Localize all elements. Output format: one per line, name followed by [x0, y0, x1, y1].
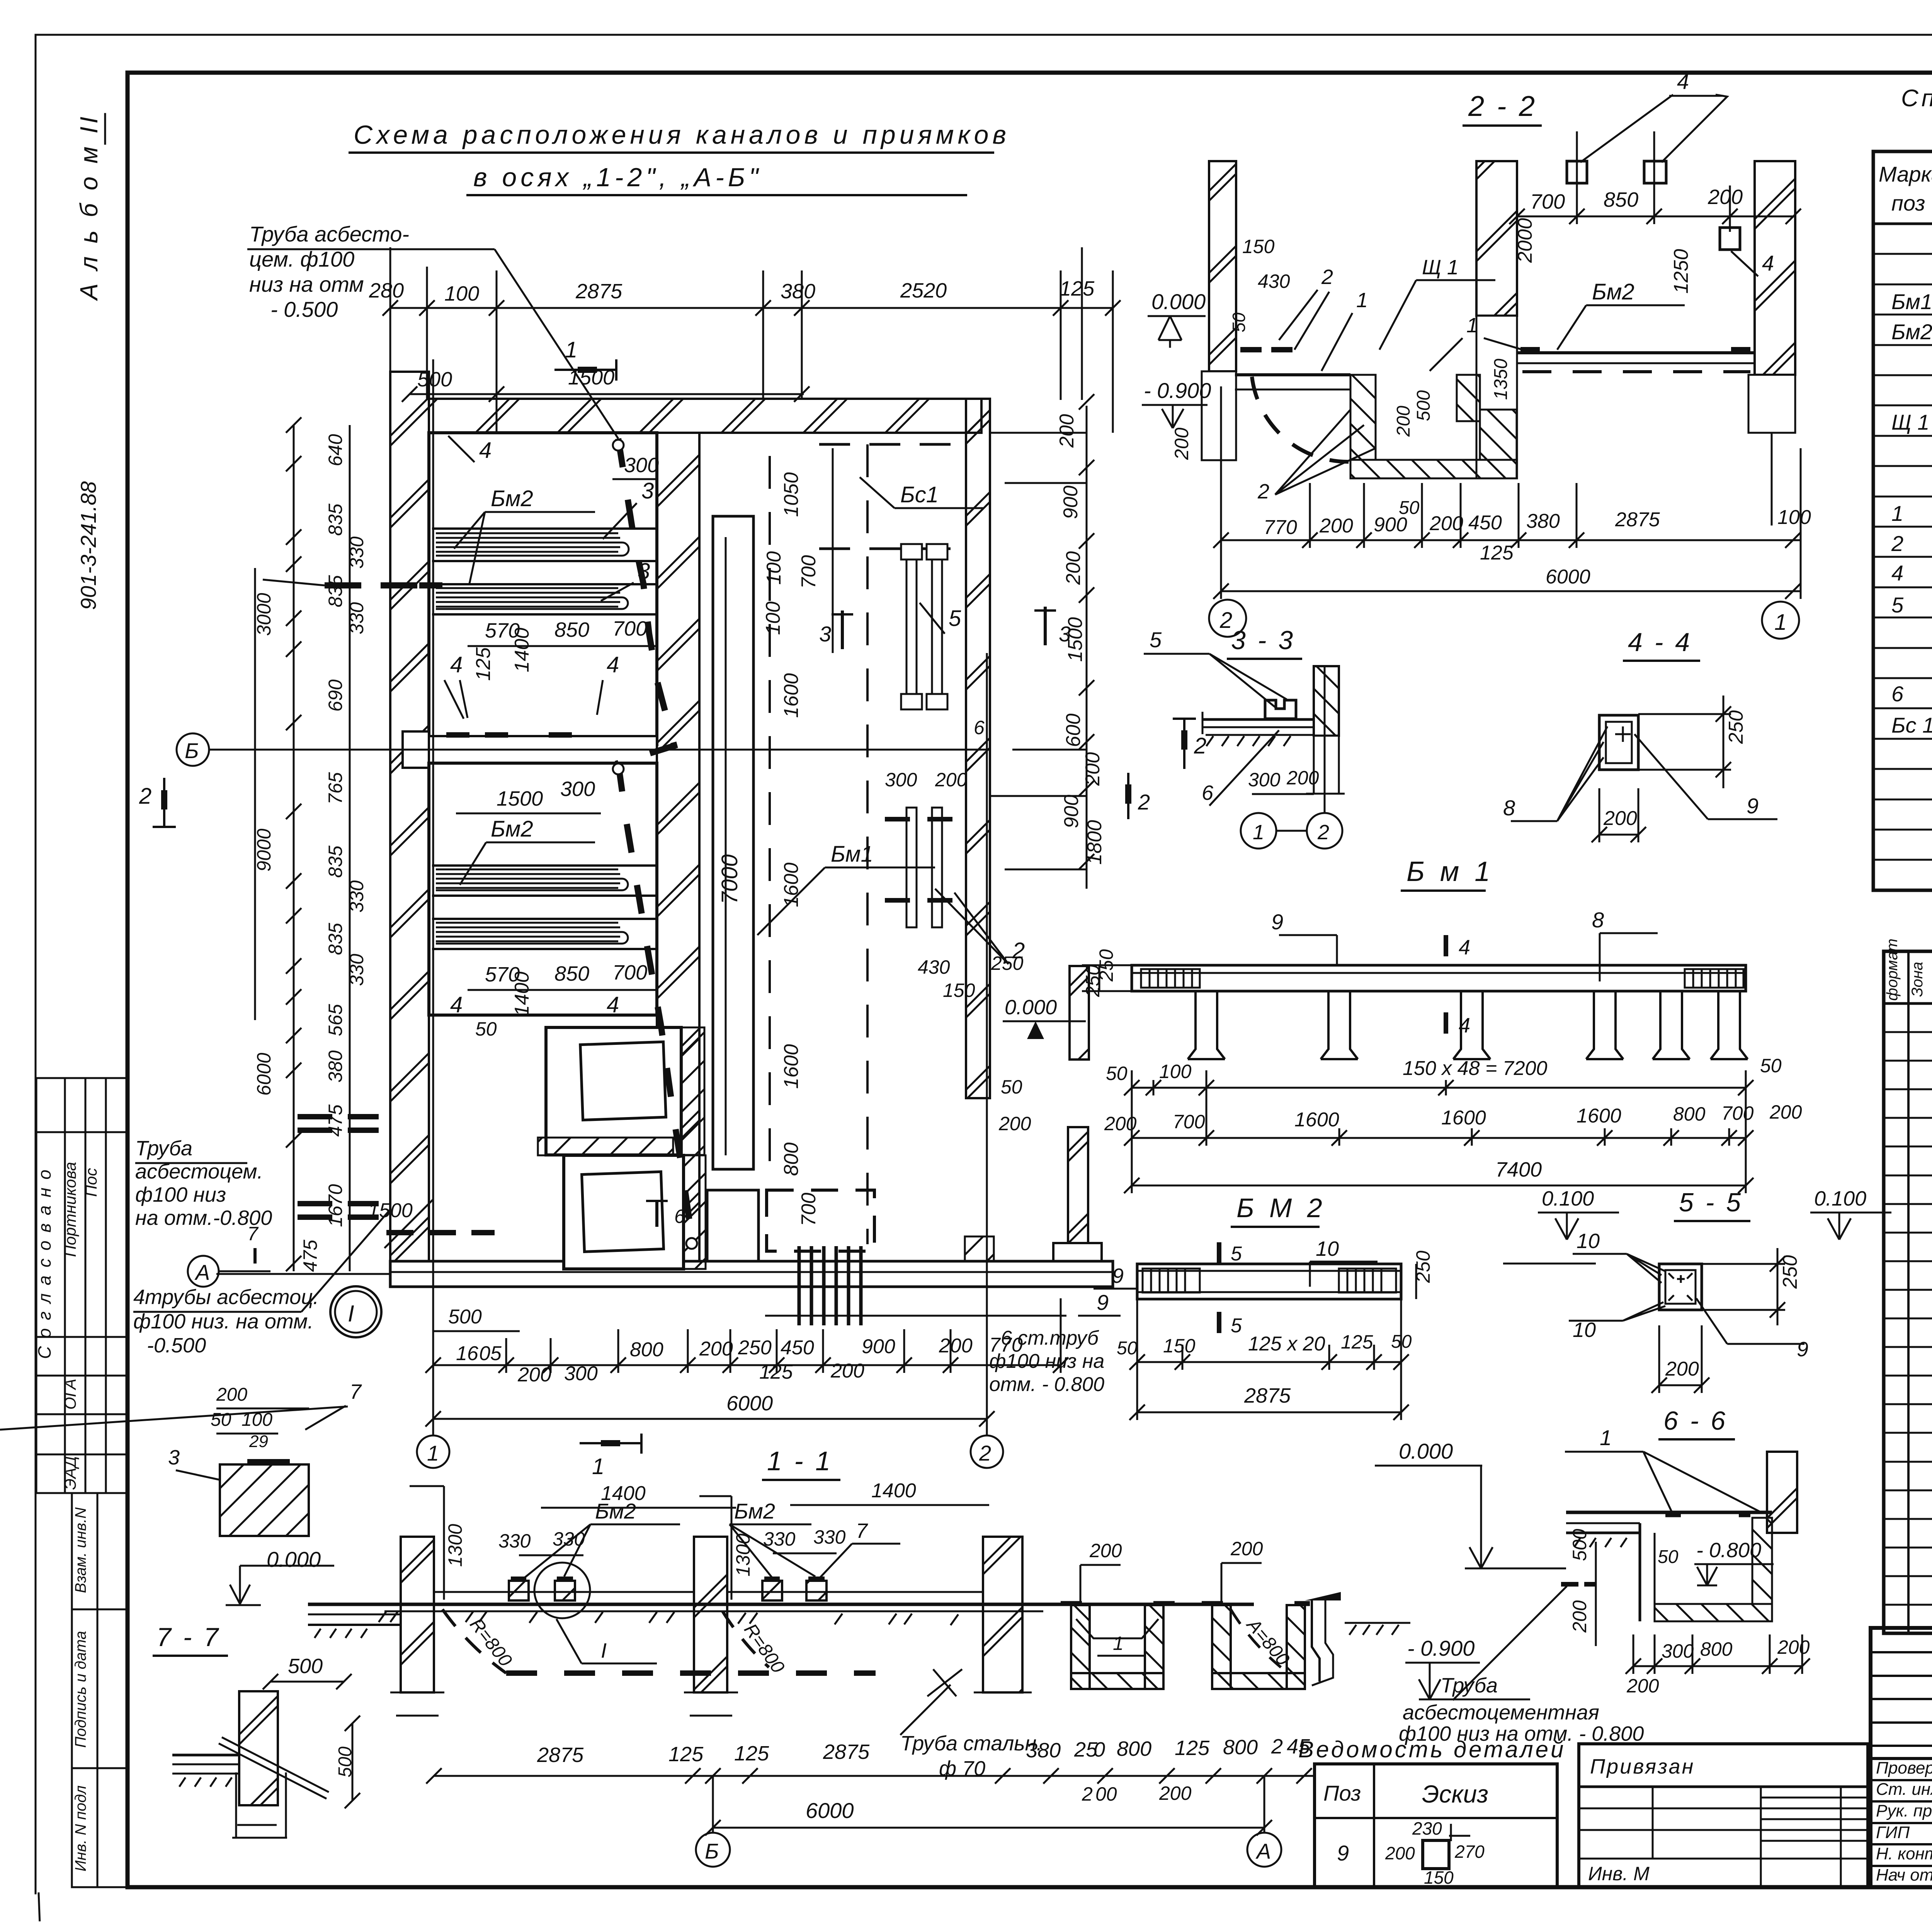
svg-text:50: 50 [475, 1018, 497, 1040]
svg-text:1: 1 [1113, 1633, 1124, 1654]
svg-text:640: 640 [325, 434, 346, 466]
svg-text:- 0.900: - 0.900 [1407, 1636, 1475, 1660]
svg-text:770: 770 [989, 1334, 1023, 1356]
wall left [390, 372, 429, 1287]
svg-text:4: 4 [450, 992, 463, 1017]
svg-text:1500: 1500 [497, 787, 543, 810]
svg-text:200: 200 [939, 1335, 973, 1357]
svg-text:А: А [1255, 1839, 1271, 1863]
wall mid B (corridor right) [966, 399, 990, 1098]
svg-text:330: 330 [346, 880, 367, 913]
svg-text:850: 850 [1604, 188, 1638, 211]
svg-text:330: 330 [763, 1528, 796, 1550]
svg-text:300: 300 [624, 454, 659, 477]
svg-text:835: 835 [325, 923, 346, 955]
svg-text:6: 6 [974, 717, 985, 738]
svg-text:4: 4 [1891, 561, 1903, 585]
svg-text:1: 1 [427, 1441, 439, 1465]
sheet outer border [36, 34, 1932, 36]
svg-text:1: 1 [1356, 289, 1368, 312]
svg-text:100: 100 [762, 602, 784, 635]
svg-text:835: 835 [325, 845, 346, 878]
svg-text:3: 3 [168, 1446, 180, 1469]
svg-text:50: 50 [211, 1410, 231, 1430]
svg-text:2: 2 [1219, 608, 1232, 633]
right end wall and -0.900 [1305, 1592, 1341, 1600]
svg-text:0.100: 0.100 [1814, 1187, 1866, 1210]
svg-text:200: 200 [1286, 767, 1319, 789]
svg-text:Рук. пр.: Рук. пр. [1876, 1801, 1932, 1820]
svg-text:- 0.800: - 0.800 [1696, 1539, 1761, 1562]
svg-text:Бм2: Бм2 [491, 816, 533, 842]
svg-text:отм. - 0.800: отм. - 0.800 [989, 1373, 1104, 1396]
svg-text:3000: 3000 [253, 593, 275, 636]
corridor dashed axis lines [769, 456, 771, 1182]
dashed line top left entering plan [325, 582, 442, 588]
svg-text:Труба: Труба [1440, 1674, 1498, 1697]
dashed trench with arcs [442, 1609, 506, 1673]
svg-text:6000: 6000 [253, 1053, 275, 1095]
svg-text:29: 29 [249, 1432, 268, 1451]
svg-text:200: 200 [1089, 1540, 1122, 1561]
svg-text:300: 300 [560, 777, 595, 801]
svg-text:200: 200 [1708, 185, 1743, 209]
sketch in table [1423, 1840, 1449, 1869]
svg-text:900: 900 [1060, 486, 1082, 519]
svg-text:380: 380 [325, 1050, 346, 1083]
wall right lower [1068, 1127, 1088, 1269]
svg-text:1400: 1400 [871, 1480, 916, 1502]
svg-text:Инв. N подл: Инв. N подл [72, 1786, 89, 1872]
svg-text:6000: 6000 [806, 1798, 854, 1823]
svg-text:850: 850 [554, 962, 589, 985]
svg-text:1: 1 [1600, 1425, 1612, 1450]
svg-text:Труба: Труба [135, 1137, 192, 1160]
tank 1 [429, 433, 657, 745]
svg-text:I: I [601, 1639, 607, 1662]
svg-text:ф100 низ: ф100 низ [135, 1183, 226, 1206]
svg-text:2875: 2875 [537, 1743, 584, 1767]
svg-text:330: 330 [346, 954, 367, 986]
beam body [1137, 1264, 1401, 1299]
svg-text:Бм2: Бм2 [491, 486, 533, 511]
beam cross square [1599, 715, 1638, 770]
svg-text:700: 700 [612, 961, 647, 984]
svg-text:200: 200 [1056, 414, 1078, 448]
svg-text:250: 250 [991, 952, 1024, 974]
svg-text:2: 2 [1321, 265, 1333, 289]
svg-text:200: 200 [517, 1364, 551, 1386]
svg-text:1: 1 [1253, 821, 1264, 844]
svg-text:900: 900 [1060, 795, 1083, 828]
svg-text:125: 125 [1480, 542, 1514, 564]
svg-text:100: 100 [1159, 1061, 1192, 1082]
svg-text:05: 05 [479, 1342, 502, 1365]
svg-text:Б: Б [185, 738, 199, 763]
svg-text:850: 850 [554, 618, 589, 641]
svg-text:формат: формат [1884, 939, 1901, 1001]
svg-text:50: 50 [1760, 1055, 1782, 1077]
svg-text:9: 9 [1271, 910, 1283, 934]
svg-text:125: 125 [668, 1743, 704, 1766]
svg-text:200: 200 [699, 1338, 733, 1360]
svg-text:2520: 2520 [900, 279, 947, 302]
svg-text:835: 835 [325, 575, 346, 607]
svg-text:300: 300 [885, 769, 917, 791]
svg-text:330: 330 [813, 1526, 846, 1548]
svg-text:Поз: Поз [1323, 1781, 1361, 1805]
wall right upper [1070, 966, 1089, 1060]
svg-text:2: 2 [1271, 1735, 1283, 1758]
square section [1659, 1264, 1702, 1310]
dashed plate right of sump [767, 1190, 874, 1251]
svg-text:800: 800 [630, 1338, 663, 1361]
svg-text:Нач отд: Нач отд [1876, 1866, 1932, 1884]
svg-text:50: 50 [1001, 1076, 1022, 1098]
svg-text:450: 450 [781, 1337, 814, 1359]
svg-text:1050: 1050 [780, 472, 803, 517]
truba stal leader [927, 1669, 962, 1696]
section marker 2 (left) [153, 778, 176, 827]
svg-text:9: 9 [1112, 1264, 1124, 1287]
svg-text:1: 1 [1466, 314, 1478, 337]
dashed trench line through tanks [618, 439, 692, 1236]
left middle pipe labels [135, 1137, 272, 1230]
svg-text:6000: 6000 [1546, 566, 1590, 588]
pipe dashes + leader [1561, 1582, 1596, 1587]
horizontal axis lines [209, 749, 989, 751]
svg-text:250: 250 [1725, 710, 1747, 744]
section marker 1 (top) [554, 359, 616, 381]
svg-text:380: 380 [1026, 1739, 1061, 1762]
axis circles 1 2 [417, 1435, 449, 1468]
svg-text:ЭАД: ЭАД [61, 1456, 79, 1490]
svg-text:3 - 3: 3 - 3 [1231, 626, 1295, 655]
ground hatch at left end [379, 1611, 958, 1625]
svg-text:10: 10 [1316, 1237, 1339, 1260]
diagonal strut [219, 1737, 329, 1799]
svg-text:835: 835 [325, 503, 346, 536]
svg-text:100: 100 [444, 282, 479, 305]
svg-text:5: 5 [1891, 593, 1904, 617]
svg-text:2: 2 [1317, 821, 1329, 844]
svg-text:2: 2 [1194, 733, 1206, 759]
svg-text:Взам. инв.N: Взам. инв.N [72, 1507, 89, 1593]
svg-text:Пос: Пос [82, 1168, 100, 1197]
svg-text:800: 800 [1673, 1103, 1706, 1125]
svg-text:7: 7 [247, 1223, 259, 1245]
svg-text:7: 7 [856, 1519, 868, 1543]
svg-text:250: 250 [1779, 1255, 1801, 1289]
beam top flange [1132, 965, 1746, 991]
svg-text:125: 125 [734, 1742, 769, 1765]
top-left pipe label [249, 222, 409, 321]
svg-text:200: 200 [1393, 406, 1414, 437]
svg-text:1600: 1600 [780, 673, 803, 718]
svg-text:Щ 1: Щ 1 [1891, 410, 1929, 434]
svg-text:2875: 2875 [823, 1740, 870, 1764]
privyazan box [1579, 1744, 1868, 1887]
top dimension row [369, 277, 1095, 305]
dividing hatched strip [538, 1138, 673, 1155]
wall column [1314, 666, 1339, 736]
svg-text:330: 330 [346, 536, 367, 569]
svg-text:Бм2: Бм2 [734, 1499, 775, 1523]
deck plate double line [1202, 718, 1314, 721]
svg-text:2875: 2875 [1615, 509, 1660, 531]
svg-text:200: 200 [1319, 515, 1353, 537]
svg-text:1400: 1400 [511, 971, 533, 1016]
left sidebar stamp column (soglasovano) [36, 1078, 128, 1493]
svg-text:800: 800 [780, 1143, 803, 1176]
right wall column [1755, 161, 1795, 375]
svg-text:16: 16 [456, 1342, 478, 1365]
svg-text:1600: 1600 [1294, 1109, 1339, 1131]
svg-text:низ на отм: низ на отм [249, 272, 364, 296]
svg-text:9000: 9000 [253, 828, 275, 871]
svg-text:6000: 6000 [726, 1392, 773, 1415]
svg-text:4 - 4: 4 - 4 [1628, 628, 1692, 657]
left dim chains [255, 425, 350, 1271]
svg-text:5: 5 [1231, 1315, 1242, 1337]
svg-text:500: 500 [1569, 1529, 1590, 1561]
svg-text:2: 2 [1891, 531, 1903, 556]
svg-text:4: 4 [1459, 936, 1470, 959]
svg-text:цем. ф100: цем. ф100 [249, 247, 354, 271]
corridor dim chain rotated [762, 472, 820, 1226]
svg-text:200: 200 [998, 1113, 1031, 1134]
svg-text:4трубы асбестоц.: 4трубы асбестоц. [133, 1286, 319, 1309]
svg-text:1: 1 [1774, 610, 1787, 635]
svg-text:1: 1 [592, 1454, 604, 1479]
svg-text:I: I [348, 1301, 354, 1327]
svg-text:4: 4 [1762, 251, 1774, 275]
svg-text:125: 125 [472, 647, 495, 681]
svg-text:Щ 1: Щ 1 [1422, 256, 1459, 279]
tank1 louver group 2 [432, 584, 657, 614]
svg-text:7 - 7: 7 - 7 [156, 1622, 221, 1652]
floor beam between mid and right walls (Бм2) [1517, 351, 1755, 354]
Bс1 dashed rect and label [819, 444, 966, 549]
svg-text:380: 380 [1526, 510, 1560, 532]
svg-text:700: 700 [612, 617, 647, 640]
svg-text:3: 3 [819, 622, 831, 646]
svg-text:475: 475 [299, 1240, 321, 1272]
svg-text:А л ь б о м II: А л ь б о м II [75, 114, 103, 301]
svg-text:С о г л а с о в а н о: С о г л а с о в а н о [34, 1168, 54, 1359]
svg-text:Ст. инж.: Ст. инж. [1876, 1780, 1932, 1799]
svg-text:50: 50 [1229, 312, 1249, 332]
svg-text:Бс1: Бс1 [900, 482, 939, 507]
svg-text:Инв. М: Инв. М [1588, 1863, 1650, 1884]
tank 2 [429, 763, 657, 1015]
svg-text:4: 4 [479, 438, 492, 463]
svg-text:1300: 1300 [444, 1524, 466, 1567]
svg-text:8: 8 [1592, 908, 1604, 932]
floor plate [172, 1754, 239, 1757]
tank1 louver group 1 [432, 529, 657, 561]
svg-text:1600: 1600 [780, 1044, 803, 1089]
bottom dim rows [1221, 539, 1801, 541]
lower strips pair [906, 808, 942, 927]
svg-text:1400: 1400 [511, 628, 533, 672]
svg-text:565: 565 [325, 1004, 346, 1036]
svg-text:асбестоцементная: асбестоцементная [1403, 1701, 1599, 1724]
channel 7000 (BM1 in plan) [713, 516, 753, 1169]
pit structure below [1235, 373, 1350, 376]
svg-text:200: 200 [1603, 807, 1637, 830]
svg-text:2: 2 [139, 784, 151, 809]
svg-text:Портникова: Портникова [61, 1162, 79, 1257]
svg-text:3: 3 [641, 478, 654, 503]
svg-text:5: 5 [949, 606, 961, 631]
svg-text:поз: поз [1891, 191, 1925, 215]
svg-text:430: 430 [1258, 270, 1290, 292]
svg-text:Эскиз: Эскиз [1422, 1780, 1488, 1808]
svg-text:0.000: 0.000 [1399, 1439, 1453, 1463]
svg-text:200: 200 [1171, 427, 1192, 460]
marker 2 left [1127, 773, 1129, 819]
clamp plates [1265, 700, 1296, 719]
svg-text:1500: 1500 [1064, 617, 1087, 662]
svg-text:5: 5 [1231, 1243, 1242, 1265]
svg-text:ф100 низ. на отм.: ф100 низ. на отм. [133, 1310, 313, 1333]
svg-text:7: 7 [350, 1380, 362, 1403]
svg-text:7000: 7000 [717, 854, 742, 904]
svg-text:770: 770 [1264, 516, 1297, 539]
marks 3-3 section tees [832, 611, 853, 649]
mark 4 above [1444, 935, 1448, 956]
svg-text:Провер.: Провер. [1876, 1759, 1932, 1777]
svg-text:6: 6 [1891, 682, 1904, 706]
svg-text:5: 5 [1150, 628, 1162, 652]
svg-text:125 x 20: 125 x 20 [1248, 1333, 1325, 1355]
svg-text:150: 150 [943, 980, 975, 1001]
svg-text:150: 150 [1163, 1335, 1196, 1357]
pit box lower [564, 1155, 684, 1269]
svg-text:Б м 1: Б м 1 [1406, 856, 1494, 887]
svg-text:в осях „1-2", „А-Б": в осях „1-2", „А-Б" [473, 163, 762, 192]
svg-text:100: 100 [763, 551, 785, 585]
section 1-1 floor line [308, 1603, 1254, 1606]
svg-text:6: 6 [1202, 781, 1214, 804]
svg-text:1600: 1600 [1577, 1105, 1621, 1127]
svg-text:-0.500: -0.500 [147, 1334, 206, 1357]
svg-text:0: 0 [1094, 1738, 1105, 1761]
embedded squares item 4 [1567, 161, 1587, 183]
svg-text:Бм2: Бм2 [1891, 320, 1932, 344]
ground hatch [1206, 736, 1291, 746]
svg-text:330: 330 [346, 602, 367, 634]
svg-text:200: 200 [935, 769, 968, 791]
svg-text:200: 200 [830, 1360, 864, 1382]
svg-text:1600: 1600 [780, 862, 803, 907]
svg-text:450: 450 [1468, 512, 1502, 534]
svg-text:200: 200 [216, 1384, 247, 1405]
svg-text:500: 500 [448, 1306, 482, 1328]
left sidebar lower column [72, 1493, 128, 1887]
svg-text:280: 280 [369, 279, 404, 302]
svg-text:200: 200 [1569, 1600, 1590, 1633]
svg-text:200: 200 [1429, 512, 1463, 535]
left wall column [1209, 161, 1236, 371]
svg-text:2: 2 [979, 1441, 991, 1465]
svg-text:2875: 2875 [1244, 1384, 1291, 1407]
tank2 louvers [432, 866, 657, 949]
svg-text:800: 800 [1117, 1737, 1151, 1760]
svg-text:0.100: 0.100 [1542, 1187, 1594, 1210]
svg-text:200: 200 [1159, 1782, 1192, 1804]
dims [1638, 713, 1731, 715]
svg-text:900: 900 [1374, 514, 1407, 536]
svg-text:700: 700 [798, 555, 820, 589]
svg-text:0.000: 0.000 [267, 1547, 321, 1571]
svg-text:300: 300 [1248, 769, 1281, 791]
svg-text:330: 330 [498, 1530, 531, 1552]
svg-text:Б: Б [705, 1839, 719, 1863]
svg-text:- 0.500: - 0.500 [270, 297, 338, 321]
svg-text:4: 4 [450, 652, 463, 677]
svg-text:4: 4 [1459, 1014, 1470, 1037]
legs [1188, 991, 1748, 1059]
svg-text:4: 4 [1677, 69, 1689, 94]
axis circles [1209, 600, 1246, 637]
svg-text:4: 4 [607, 652, 619, 677]
right wall column [1767, 1452, 1797, 1533]
svg-text:765: 765 [325, 772, 346, 804]
svg-text:700: 700 [1721, 1102, 1754, 1124]
svg-text:800: 800 [1700, 1638, 1733, 1660]
svg-text:200: 200 [1062, 551, 1085, 585]
svg-text:50: 50 [1117, 1338, 1138, 1359]
axis circle B [177, 733, 209, 766]
wall columns [401, 1537, 434, 1692]
wall column [239, 1691, 278, 1805]
dashed pipe lines entering at left [298, 1117, 379, 1130]
mark 5 above [1217, 1242, 1221, 1263]
svg-text:Б М 2: Б М 2 [1236, 1193, 1326, 1223]
svg-text:100: 100 [1777, 506, 1811, 529]
axis circles 1-2 pair [1241, 813, 1276, 849]
right side rotated dims between plan and 2-2 [1056, 414, 1106, 865]
svg-text:200: 200 [1385, 1843, 1415, 1863]
axis circle A [188, 1256, 219, 1287]
svg-text:200: 200 [1665, 1358, 1699, 1380]
svg-text:Бм2: Бм2 [1592, 279, 1634, 304]
svg-text:6: 6 [674, 1206, 685, 1227]
svg-text:150: 150 [1242, 236, 1275, 257]
svg-text:Труба стальн.: Труба стальн. [900, 1732, 1042, 1755]
sump below channel [707, 1190, 759, 1261]
section marker 2 right [1173, 719, 1196, 769]
svg-text:1600: 1600 [1441, 1107, 1486, 1129]
big I circle [330, 1286, 381, 1337]
svg-text:2 - 2: 2 - 2 [1468, 90, 1537, 122]
svg-text:10: 10 [1573, 1318, 1596, 1342]
svg-text:50: 50 [1106, 1063, 1128, 1084]
svg-text:330: 330 [553, 1528, 585, 1550]
svg-text:9: 9 [1747, 794, 1759, 818]
svg-text:700: 700 [1173, 1111, 1205, 1133]
svg-text:1300: 1300 [732, 1534, 754, 1577]
mark 5 below [1217, 1312, 1221, 1333]
svg-text:Ведомость деталей: Ведомость деталей [1298, 1736, 1566, 1762]
svg-text:1350: 1350 [1491, 359, 1511, 400]
svg-text:ОГА: ОГА [61, 1379, 79, 1410]
svg-text:800: 800 [1223, 1736, 1258, 1759]
svg-text:200: 200 [1230, 1538, 1263, 1560]
svg-text:10: 10 [1577, 1230, 1600, 1253]
